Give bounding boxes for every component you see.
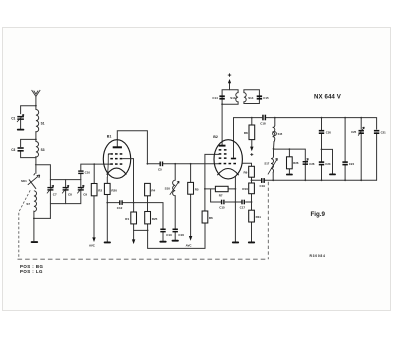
wire B1 grid lead right (122, 159, 133, 203)
node detector rail junction (251, 179, 253, 181)
coil S10 (oscillator, adjustable) (165, 180, 180, 196)
wire detector rail (252, 179, 377, 181)
capacitor C13 (160, 229, 172, 238)
svg-text:C24: C24 (349, 162, 355, 166)
resistor R8 (244, 125, 255, 140)
resistor R9 (244, 166, 255, 177)
svg-text:C19: C19 (260, 184, 266, 188)
svg-text:R8: R8 (244, 131, 248, 135)
wire C21 column (376, 133, 378, 181)
svg-text:C15: C15 (219, 205, 225, 209)
svg-text:C16: C16 (178, 233, 184, 237)
svg-text:C5: C5 (158, 167, 162, 171)
svg-text:C18: C18 (260, 121, 266, 125)
capacitor C1 (aerial trimmer) (11, 114, 24, 122)
wire R5 top (190, 164, 192, 183)
wire C24 column (344, 118, 346, 181)
svg-text:R5: R5 (195, 187, 199, 191)
capacitor C24 (342, 161, 354, 166)
wire S17 bottom lead (272, 173, 274, 181)
capacitor C16 (173, 229, 185, 238)
wire top rail right of C18 (266, 118, 376, 130)
wire R5 bottom to AVC arrow (190, 194, 192, 236)
svg-text:R11: R11 (256, 215, 262, 219)
node cathode rail junction (106, 202, 108, 204)
trimmer capacitor C8 (62, 185, 72, 196)
wire C26 to detector rail (304, 164, 306, 180)
svg-text:R30084: R30084 (310, 254, 326, 258)
ground (below B2 cathode) (232, 242, 239, 244)
node S17 bottom junction (272, 179, 274, 181)
capacitor C17 (240, 200, 246, 210)
node C20 column junctions (321, 117, 323, 119)
wire IF left tank box (222, 90, 238, 105)
svg-text:R1: R1 (125, 217, 129, 221)
wire C15 C17 rail (211, 201, 252, 203)
svg-text:C8: C8 (68, 192, 72, 196)
svg-text:R6: R6 (209, 216, 213, 220)
arrow and + (below R8) (250, 147, 253, 156)
wire C16 to ground (174, 231, 176, 239)
coil S3 (36, 142, 39, 158)
wire B2 screen to top rail (234, 118, 262, 158)
wire ground branch (322, 149, 333, 173)
wire B2 anode to IF tank (221, 104, 223, 144)
capacitor C19 (detector coupling) (260, 178, 266, 188)
capacitor C18 (series in rail) (260, 115, 266, 126)
svg-text:POS : LG: POS : LG (20, 269, 43, 274)
wire R9 to R10 (251, 177, 253, 183)
resistor R10 (242, 183, 254, 194)
node choke rail junction (274, 117, 276, 119)
svg-text:S14: S14 (248, 96, 254, 100)
svg-text:B1: B1 (107, 135, 112, 139)
wire R26 top lead (288, 149, 290, 157)
node tank junction (35, 139, 37, 141)
wire trimmer bottom rail (50, 191, 80, 204)
node detector rail junctions (304, 179, 306, 181)
node S7 junction (33, 218, 35, 220)
wire S10 top (174, 164, 176, 180)
node R26 junction (289, 148, 291, 150)
svg-text:C21: C21 (381, 130, 387, 134)
capacitor C12 (117, 200, 123, 210)
node R1 R25 tie junction (147, 230, 149, 232)
svg-text:C17: C17 (240, 205, 246, 209)
svg-text:R10: R10 (242, 187, 248, 191)
wire coupling rail B1 to B2 (147, 163, 218, 165)
dashed chassis box (18, 182, 269, 259)
svg-text:C25: C25 (351, 130, 357, 134)
wire node junction to trimmer top rail (35, 165, 80, 180)
resistor R6 (202, 211, 213, 223)
node R1 top junction (133, 202, 135, 204)
wire S7 bottom to ground (33, 211, 35, 241)
ground (below S7 tuning section) (31, 241, 38, 243)
wire R7 left lead (205, 188, 216, 190)
node C25 rail junction (360, 117, 362, 119)
wire antenna lead (35, 96, 37, 109)
AVC arrow (below R2) (89, 237, 96, 248)
wire R8 arrow shaft (251, 140, 253, 147)
wire R1 top (133, 203, 135, 212)
wire C20 C23 column (321, 118, 323, 181)
node antenna C1 junction (35, 105, 37, 107)
wire R20 bottom to ground (106, 195, 108, 242)
node S10 junction (174, 163, 176, 165)
resistor R20 (104, 183, 117, 194)
wire cathode rail to C13 (107, 203, 163, 229)
mechanical link (dashed) to tuning (19, 190, 30, 212)
wire S10 bottom to C16 (174, 196, 176, 229)
svg-text:C13: C13 (166, 233, 172, 237)
wire R7 stub to C15 rail (210, 189, 212, 202)
node R5 junction (190, 163, 192, 165)
wire R1 bottom tie (134, 224, 148, 231)
svg-text:C3: C3 (11, 148, 15, 152)
svg-text:R25: R25 (152, 217, 158, 221)
wire R11 to ground (251, 222, 253, 241)
ground (below C1) (17, 129, 24, 131)
svg-text:C14: C14 (212, 96, 218, 100)
svg-text:R26: R26 (293, 161, 299, 165)
wire supply arrow shaft (229, 83, 231, 90)
ground (below R11) (248, 242, 255, 244)
svg-text:S7: S7 (26, 202, 30, 206)
antenna (32, 90, 41, 96)
tube B2 (213, 135, 242, 179)
svg-text:C26: C26 (309, 162, 315, 166)
resistor R2 (91, 184, 102, 196)
wire C25 trimmer column (360, 118, 362, 181)
coil S1 (36, 110, 39, 132)
svg-text:C1: C1 (11, 117, 15, 121)
wire R2 bottom to AVC arrow (93, 196, 95, 237)
resistor R4 (145, 183, 156, 195)
ground (below C16) (172, 240, 179, 242)
capacitor C23 (319, 161, 331, 166)
node R4 junction (147, 163, 149, 165)
svg-text:S13: S13 (230, 96, 236, 100)
capacitor C10 (78, 170, 90, 174)
svg-text:Fig.9: Fig.9 (311, 211, 326, 218)
svg-text:NX 644 V: NX 644 V (314, 94, 342, 101)
wire B2 cathode to ground (234, 177, 236, 242)
svg-text:C20: C20 (326, 130, 332, 134)
trimmer capacitor C7 (47, 185, 57, 196)
ground (below R20) (104, 242, 111, 244)
svg-text:R2: R2 (98, 189, 102, 193)
coil S7 (34, 191, 37, 212)
tube B1 (103, 135, 130, 179)
svg-text:R9: R9 (244, 171, 248, 175)
node C24 rail junction (344, 117, 346, 119)
coil S17 (adjustable) (264, 156, 277, 174)
resistor R7 (horizontal) (215, 186, 228, 197)
wire IF right tank box (244, 90, 260, 104)
wire C8 leads (65, 180, 67, 204)
node R8 rail junction (251, 117, 253, 119)
svg-text:C9: C9 (83, 192, 87, 196)
node grid junction (93, 163, 95, 165)
svg-text:S10: S10 (165, 187, 171, 191)
svg-text:S17: S17 (264, 161, 269, 165)
label POS BG / POS LG (20, 264, 43, 274)
node cathode junctions (235, 188, 237, 190)
node S17 top junction (273, 148, 275, 150)
wire AVC detector line (274, 149, 306, 161)
wire R25 bottom to R6 bottom (148, 223, 205, 248)
arrow (below R1) (132, 239, 135, 244)
resistor R5 (188, 182, 199, 194)
wire R2 top (93, 164, 95, 183)
node C15 rail junction (251, 201, 253, 203)
wire antenna junction to C1 (21, 106, 36, 114)
svg-text:S15: S15 (278, 132, 283, 136)
capacitor C21 (374, 130, 386, 134)
wire S7 column to trimmer bottom rail (34, 217, 51, 219)
node R7 left junction (204, 188, 206, 190)
wire B1 anode top loop (117, 131, 147, 164)
wire tank top (21, 139, 36, 146)
wire C7 lead (49, 180, 51, 187)
switch SK1 (band switch BG/LG) (28, 173, 40, 184)
IF transformer coil S14 (244, 93, 246, 102)
resistor R26 (287, 157, 299, 169)
svg-text:S1: S1 (41, 122, 45, 126)
svg-text:C15: C15 (263, 96, 269, 100)
svg-text:S3: S3 (41, 148, 45, 152)
wire C9 lead (80, 180, 82, 187)
trimmer capacitor C25 (351, 127, 364, 136)
svg-text:C12: C12 (117, 206, 123, 210)
trimmer capacitor C9 (77, 185, 87, 196)
wire C1 to ground (20, 120, 22, 129)
svg-text:C7: C7 (53, 192, 57, 196)
capacitor C5 (158, 162, 163, 172)
svg-text:B2: B2 (213, 135, 218, 139)
IF transformer capacitor C15b (257, 95, 269, 100)
IF transformer capacitor C14 (212, 95, 224, 100)
IF transformer coil S13 (236, 93, 238, 102)
wire R8 top lead (251, 118, 253, 125)
svg-text:R20: R20 (111, 188, 117, 192)
wire R10 to C15 rail (251, 194, 253, 211)
node IF tank junction (221, 103, 223, 105)
wire switch lower stub (29, 180, 36, 189)
choke coil S15 (272, 125, 282, 141)
wire B2 anode lead to R9 (242, 163, 251, 166)
capacitor C20 (319, 130, 332, 134)
svg-text:AVC: AVC (186, 243, 193, 247)
svg-text:R4: R4 (151, 188, 155, 192)
resistor R11 (249, 210, 262, 222)
capacitor C15 (219, 200, 225, 210)
wire tank to switch (35, 157, 37, 174)
wire R1 arrow shaft (133, 230, 135, 240)
wire R20 top to tube B1 (106, 177, 108, 183)
AVC arrow (below R5) (186, 236, 193, 247)
capacitor C3 (11, 147, 24, 152)
wire R4 to R25 (147, 196, 149, 212)
wire oscillator grid line (205, 154, 219, 211)
ground (below R26) (286, 174, 293, 176)
svg-text:C23: C23 (325, 162, 331, 166)
ground (right bypass) (329, 174, 336, 176)
wire C10 column (81, 164, 111, 180)
wire choke S15 leads (274, 118, 275, 149)
capacitor C26 (electrolytic) (303, 158, 315, 165)
wire S1 to tank junction (35, 132, 37, 142)
supply + arrow (228, 73, 231, 83)
svg-text:AVC: AVC (89, 244, 96, 248)
wire tank bottom (21, 152, 36, 158)
wire S17 top lead (273, 149, 275, 156)
resistor R1 (125, 212, 136, 224)
wire R26 to ground (288, 169, 290, 174)
svg-text:R7: R7 (219, 194, 223, 198)
svg-text:SK1: SK1 (21, 179, 27, 183)
resistor R25 (145, 212, 158, 224)
wire C7 column down (49, 191, 51, 219)
svg-text:C10: C10 (85, 171, 91, 175)
wire C13 to ground (162, 231, 164, 240)
wire R7 right lead (228, 188, 235, 190)
ground (below C13) (159, 241, 166, 243)
